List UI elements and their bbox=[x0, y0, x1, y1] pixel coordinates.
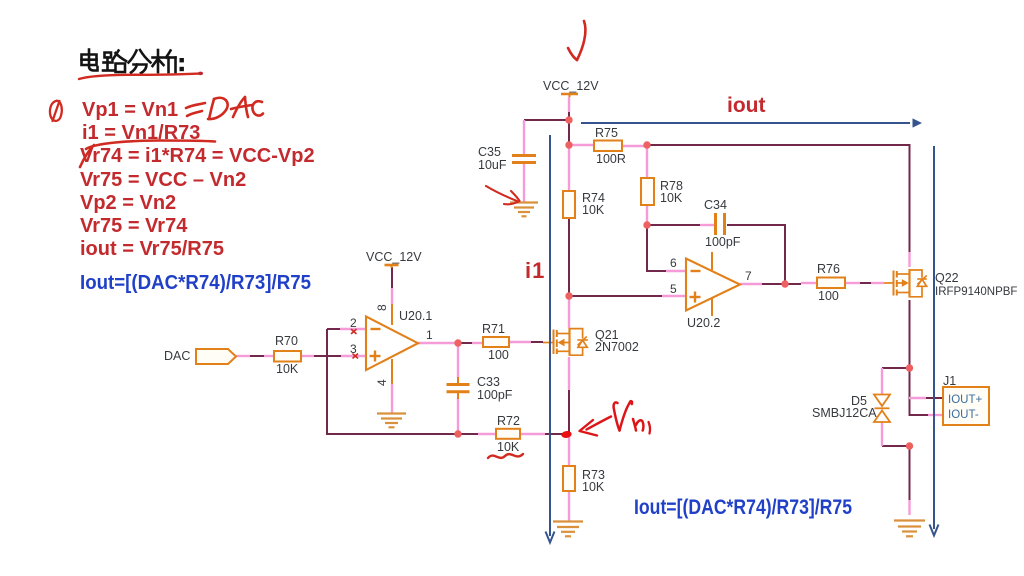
svg-text:IOUT-: IOUT- bbox=[948, 409, 979, 421]
svg-text:4: 4 bbox=[375, 379, 389, 386]
svg-text:Vp1 = Vn1: Vp1 = Vn1 bbox=[82, 99, 178, 121]
svg-text:10K: 10K bbox=[497, 440, 520, 454]
svg-text:10uF: 10uF bbox=[478, 158, 507, 172]
svg-text:2N7002: 2N7002 bbox=[595, 340, 639, 354]
svg-text:DAC: DAC bbox=[164, 349, 190, 363]
svg-text:R72: R72 bbox=[497, 414, 520, 428]
svg-text:100: 100 bbox=[488, 348, 509, 362]
svg-text:IRFP9140NPBF: IRFP9140NPBF bbox=[935, 286, 1017, 298]
svg-text:100R: 100R bbox=[596, 152, 626, 166]
svg-text:100pF: 100pF bbox=[705, 235, 741, 249]
svg-text:J1: J1 bbox=[943, 374, 956, 388]
svg-text:10K: 10K bbox=[276, 362, 299, 376]
svg-text:6: 6 bbox=[670, 256, 677, 270]
svg-text:U20.2: U20.2 bbox=[687, 316, 720, 330]
svg-text:7: 7 bbox=[745, 269, 752, 283]
svg-text:C33: C33 bbox=[477, 375, 500, 389]
svg-text:1: 1 bbox=[426, 328, 433, 342]
svg-text:R75: R75 bbox=[595, 126, 618, 140]
svg-text:10K: 10K bbox=[660, 191, 683, 205]
svg-text:Iout=[(DAC*R74)/R73]/R75: Iout=[(DAC*R74)/R73]/R75 bbox=[634, 495, 852, 519]
svg-text:Q22: Q22 bbox=[935, 271, 959, 285]
svg-text:Vr75 = VCC – Vn2: Vr75 = VCC – Vn2 bbox=[80, 169, 246, 191]
svg-text:iout = Vr75/R75: iout = Vr75/R75 bbox=[80, 238, 224, 260]
svg-text:VCC_12V: VCC_12V bbox=[366, 250, 422, 264]
svg-text:5: 5 bbox=[670, 282, 677, 296]
svg-text:10K: 10K bbox=[582, 480, 605, 494]
svg-text:8: 8 bbox=[375, 304, 389, 311]
svg-text:10K: 10K bbox=[582, 203, 605, 217]
svg-text:Iout=[(DAC*R74)/R73]/R75: Iout=[(DAC*R74)/R73]/R75 bbox=[80, 272, 311, 294]
svg-text:R71: R71 bbox=[482, 322, 505, 336]
svg-text:i1: i1 bbox=[525, 258, 545, 283]
svg-text:100: 100 bbox=[818, 289, 839, 303]
svg-text:Vr74 = i1*R74 = VCC-Vp2: Vr74 = i1*R74 = VCC-Vp2 bbox=[80, 145, 315, 167]
svg-text:Vr75 = Vr74: Vr75 = Vr74 bbox=[80, 215, 188, 237]
svg-text:VCC_12V: VCC_12V bbox=[543, 79, 599, 93]
svg-text:Vp2 = Vn2: Vp2 = Vn2 bbox=[80, 192, 176, 214]
svg-text:iout: iout bbox=[727, 94, 765, 117]
svg-text:U20.1: U20.1 bbox=[399, 309, 432, 323]
svg-text:SMBJ12CA: SMBJ12CA bbox=[812, 406, 877, 420]
svg-text:2: 2 bbox=[350, 316, 357, 330]
svg-text:R76: R76 bbox=[817, 262, 840, 276]
svg-text:100pF: 100pF bbox=[477, 388, 513, 402]
svg-text:R70: R70 bbox=[275, 334, 298, 348]
svg-text:IOUT+: IOUT+ bbox=[948, 394, 982, 406]
svg-text:C35: C35 bbox=[478, 145, 501, 159]
svg-text:C34: C34 bbox=[704, 198, 727, 212]
